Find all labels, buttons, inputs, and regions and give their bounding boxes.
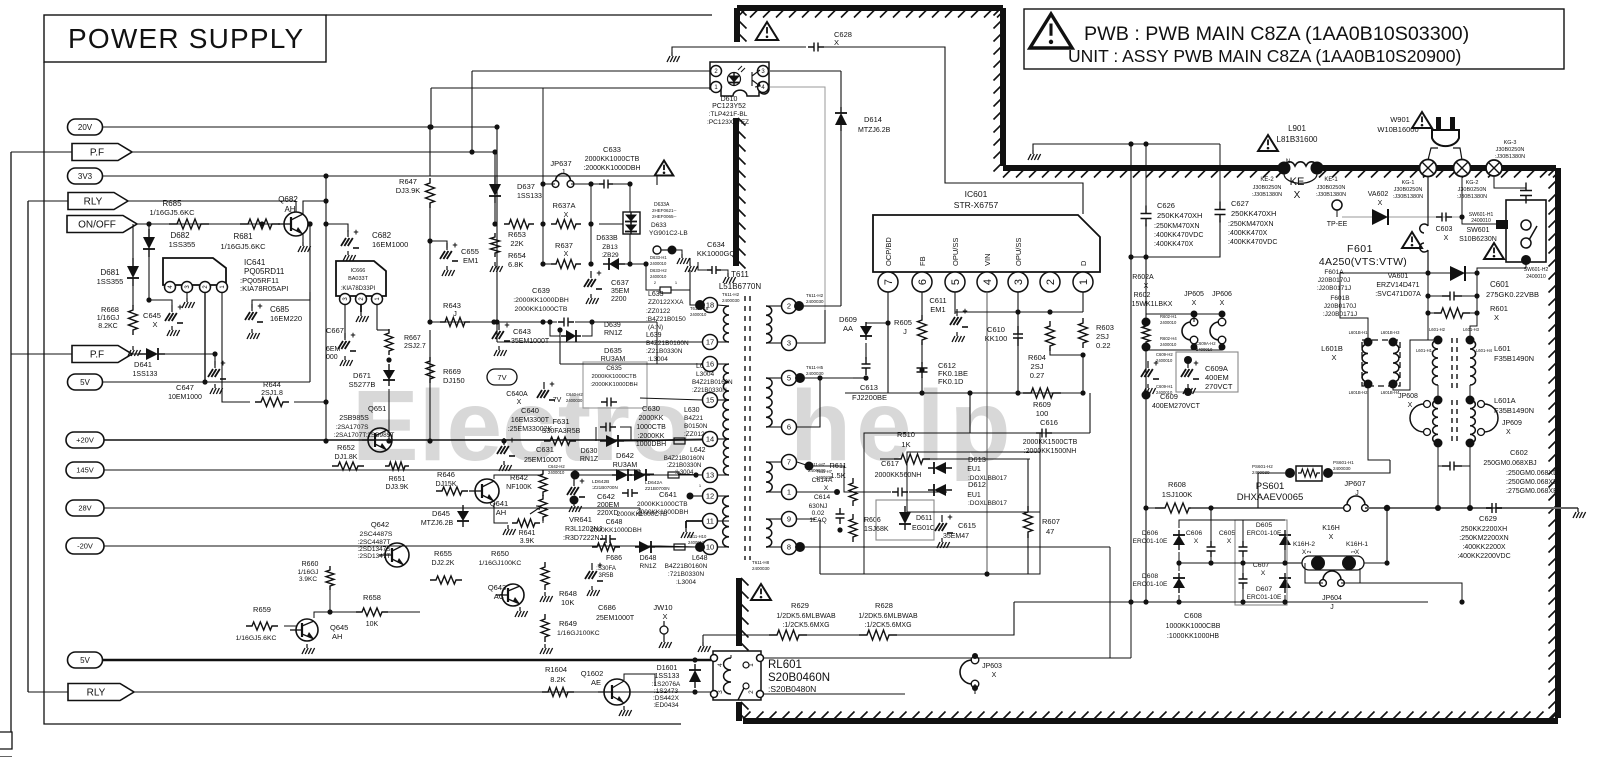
svg-text:C667: C667 [326,326,344,335]
svg-text:11: 11 [706,517,714,526]
svg-text:K16H-1: K16H-1 [1346,541,1368,548]
transformer T611 right winding C [766,462,772,492]
capacitor C628 [808,43,824,52]
svg-text:ON/OFF: ON/OFF [78,220,116,231]
resistor R643 [440,318,470,327]
jumper JP637 [552,181,559,188]
diode D1601 [694,664,696,688]
isolation barrier right descent [1000,8,1006,166]
svg-text:X: X [1378,200,1383,207]
bus y574 [820,573,1040,575]
svg-text:D630: D630 [581,448,598,455]
wire relay right bottom [764,693,905,695]
svg-text:200EM: 200EM [597,502,619,509]
svg-text:EU1: EU1 [967,466,981,473]
svg-text:R669: R669 [443,367,461,376]
svg-text:C682: C682 [372,231,392,240]
svg-text:5V: 5V [80,656,90,665]
svg-text:D648: D648 [640,555,657,562]
capacitor C626 [1145,144,1147,212]
wire pin1 right [797,491,837,493]
transformer T611 right winding A [766,306,772,343]
svg-text:X: X [517,399,522,406]
svg-text:C685: C685 [270,305,290,314]
svg-text:C609A-H2: C609A-H2 [1196,341,1216,346]
svg-text:L81B31600: L81B31600 [1277,135,1318,144]
T611 pin 10 [703,540,718,555]
svg-text:16EM1000: 16EM1000 [372,240,408,249]
svg-text:RN1Z: RN1Z [640,563,657,570]
svg-text:POWER SUPPLY: POWER SUPPLY [68,23,304,54]
T611 pin 3 [782,336,797,351]
svg-text:SW601: SW601 [1467,227,1490,234]
svg-text:R659: R659 [253,605,271,614]
svg-text:630NJ: 630NJ [809,503,828,510]
wire -20V to D648 [645,545,660,547]
svg-text:2SB985S: 2SB985S [339,415,369,422]
svg-text:D641: D641 [134,360,152,369]
svg-text:DJ150: DJ150 [443,376,465,385]
transistor Q651 [368,428,392,452]
svg-text:R647: R647 [399,177,417,186]
isolation barrier top-left stub [734,8,740,42]
wire pin8 bus down [900,546,1110,548]
wire opto left pin2 [472,70,710,72]
ferrite bead pin10 [674,544,685,550]
svg-text:C686: C686 [598,603,616,612]
svg-text:1/16GJ5.6KC: 1/16GJ5.6KC [236,635,277,642]
svg-text:STR-X6757: STR-X6757 [954,200,999,210]
svg-text:2000KK: 2000KK [639,415,664,422]
svg-text:OCP/BD: OCP/BD [884,237,893,266]
svg-text:DJ3.9K: DJ3.9K [386,484,409,491]
T611 pin 13 [703,468,718,483]
svg-text:+: + [597,560,602,570]
svg-text:X: X [1261,570,1266,577]
svg-text:C647: C647 [176,383,194,392]
transistor Q1602 [604,679,630,705]
svg-text:JP603: JP603 [982,663,1002,670]
svg-text:KG-2: KG-2 [1466,180,1479,186]
capacitor C686 [591,563,593,570]
capacitor C682 [326,224,348,232]
svg-text:R604: R604 [1028,353,1046,362]
capacitor C627 [1219,144,1221,206]
svg-text:J30B0250N: J30B0250N [1394,187,1423,193]
svg-text:L901: L901 [1288,124,1306,133]
ground Q682 [302,234,304,242]
svg-text:W901: W901 [1390,115,1410,124]
svg-text:IC601: IC601 [965,189,988,199]
svg-text:4A250(VTS:VTW): 4A250(VTS:VTW) [1319,256,1407,268]
wire 5V to IC641 [309,292,311,382]
wire pin5 right [805,377,866,379]
svg-text:T611-H2: T611-H2 [806,293,824,298]
svg-text:5V: 5V [80,378,90,387]
svg-text:OPU/SS: OPU/SS [1014,238,1023,266]
svg-text:1SS133: 1SS133 [655,673,680,680]
svg-text:JP606: JP606 [1212,291,1232,298]
svg-text::DS442X: :DS442X [653,695,680,702]
capacitor C611 [954,292,956,314]
svg-text:X: X [1329,534,1334,541]
svg-text:2000KK1000CTB: 2000KK1000CTB [637,501,688,508]
svg-text::Z21B0330N: :Z21B0330N [646,348,683,355]
svg-text:T611-H8: T611-H8 [752,560,770,565]
svg-text:100: 100 [1036,409,1049,418]
svg-text:25EM1000T: 25EM1000T [524,457,563,464]
svg-text:EG01C: EG01C [912,525,935,532]
svg-text:D611: D611 [916,515,932,522]
resistor R652 [332,462,364,470]
svg-text:X: X [1220,300,1225,307]
svg-text:D: D [1079,260,1088,266]
wire pin16 left [560,363,703,365]
connector RLY top [68,193,128,210]
svg-text:R608: R608 [1168,480,1186,489]
svg-text:C609A: C609A [1205,364,1228,373]
T611 pin 15 [703,393,718,408]
svg-text:R681: R681 [233,232,253,241]
svg-text:R654: R654 [508,251,526,260]
svg-text:6.8K: 6.8K [508,260,523,269]
wires diode cluster [1179,520,1285,528]
ground right bus [1560,507,1578,509]
svg-text:4: 4 [717,663,724,667]
diode D609 [866,322,888,324]
diode D641 [139,353,165,355]
T611 pin 5 [782,371,797,386]
oval 7V box [487,369,517,385]
vertical x543 [542,88,544,264]
svg-text:2400010: 2400010 [688,540,705,545]
svg-text:2SC4487S: 2SC4487S [360,531,393,538]
svg-text:0.27: 0.27 [1030,371,1045,380]
svg-text:RN1Z: RN1Z [580,456,599,463]
svg-text:2HEF0621--: 2HEF0621-- [652,208,677,213]
T611 pin 12 [703,489,718,504]
svg-text:275GK0.22VBB: 275GK0.22VBB [1486,290,1539,299]
svg-text:C642: C642 [597,492,615,501]
svg-text:D633-H1: D633-H1 [650,255,667,260]
vertical rail x1131 [1130,144,1132,602]
svg-text:R655: R655 [434,549,452,558]
svg-text:R658: R658 [363,593,381,602]
svg-text:D671: D671 [353,371,371,380]
svg-text:R685: R685 [162,199,182,208]
svg-text:+: + [962,306,967,316]
resistor R641 [512,519,540,527]
wire C628 right [822,47,1083,214]
wire Q682 collector right [303,201,326,214]
optocoupler D610 [710,62,769,96]
svg-text:C615: C615 [958,521,976,530]
capacitor C642 [573,475,575,482]
svg-text:2400030: 2400030 [722,298,740,303]
capacitor C645 [171,305,173,312]
resistor R659 [246,622,278,630]
svg-text::R3D7222NJ: :R3D7222NJ [563,535,603,542]
svg-text:IC666: IC666 [351,268,366,274]
svg-text:S5277B: S5277B [349,380,376,389]
svg-text:EM1: EM1 [930,305,945,314]
svg-text:D681: D681 [100,268,120,277]
svg-text:2400010: 2400010 [1156,358,1173,363]
capacitor C615 [941,515,943,522]
wire C602 down to bus [1437,466,1439,508]
svg-text:C610: C610 [987,325,1005,334]
svg-text:2400030: 2400030 [806,299,824,304]
svg-text:PQ05RD11: PQ05RD11 [244,267,285,276]
svg-text:VIN: VIN [983,253,992,266]
resistor R610 [894,454,930,464]
svg-text:+: + [257,301,262,311]
ground T611 top [690,270,703,305]
svg-text:L601B-H3: L601B-H3 [1381,330,1401,335]
svg-text:PC123Y52: PC123Y52 [712,103,746,110]
node x497 bus [496,127,498,342]
svg-text:DJ15K: DJ15K [435,481,456,488]
svg-text:R668: R668 [101,305,119,314]
svg-text:R643: R643 [443,301,461,310]
ground IC666 pin2 [360,304,362,312]
svg-text:J: J [561,169,565,176]
svg-text:X: X [834,38,839,47]
svg-text::400KK470VDC: :400KK470VDC [1228,239,1277,246]
svg-text:C614: C614 [814,494,830,501]
svg-text::721B0330N: :721B0330N [668,571,704,578]
isolation barrier AC line right [1319,165,1556,171]
svg-text:12: 12 [706,492,714,501]
wire relay right top [764,657,975,659]
T611 pin 2 [782,299,797,314]
svg-text:R601: R601 [1490,304,1508,313]
svg-text:T611-H10: T611-H10 [688,534,707,539]
svg-text:2400030: 2400030 [566,398,583,403]
svg-text:AH: AH [332,632,342,641]
svg-text:R606: R606 [864,517,881,524]
resistor R649 [541,614,549,642]
svg-text:X: X [1408,402,1413,409]
isolation barrier bottom [743,718,1558,724]
resistor R606 [849,514,857,542]
svg-text:ERZV14D471: ERZV14D471 [1376,282,1419,289]
svg-text:ERC01-10E: ERC01-10E [1133,581,1168,588]
connector 3V3 [68,168,103,184]
warning triangle below transformer [751,584,771,600]
wire pin7 right [797,462,809,466]
svg-text:R609: R609 [1033,400,1051,409]
svg-text:1/16GJ5.6KC: 1/16GJ5.6KC [149,208,195,217]
isolation barrier below transformer [736,578,742,646]
transformer T611 left winding D [723,439,729,475]
svg-text:EU1: EU1 [967,492,981,499]
svg-text:+20V: +20V [76,436,94,445]
wire pin17 left [497,341,703,343]
trimmer VR641 [539,495,547,521]
svg-text:1/16GJ: 1/16GJ [298,569,319,576]
svg-text:1K: 1K [901,440,910,449]
wire pin14 left [652,439,703,440]
svg-text::250KM470XN: :250KM470XN [1228,221,1274,228]
svg-text::2000KK1000DBH: :2000KK1000DBH [590,382,637,388]
resistor R605 [918,315,927,345]
svg-text::1/2CK5.6MXG: :1/2CK5.6MXG [782,622,829,629]
svg-text:C635: C635 [606,365,622,372]
warning triangle sw [1484,243,1504,259]
svg-text:8: 8 [787,543,791,552]
svg-text:1/2DK5.6MLBWAB: 1/2DK5.6MLBWAB [858,613,918,620]
svg-text::J30B1380N: :J30B1380N [1252,192,1282,198]
wire switch down [1477,262,1526,273]
wire pin15 left [640,398,703,400]
capacitor C685 [252,224,310,308]
wire top rail y312 [955,311,1083,313]
diode D637 [494,177,496,203]
svg-text:D613: D613 [968,455,986,464]
capacitor C609A [1176,352,1238,392]
diode D614 [840,107,842,131]
svg-text:D605: D605 [1256,522,1272,529]
svg-text::2SD1347T: :2SD1347T [358,553,391,560]
T611 pin 6 [782,420,797,435]
wire P.F bottom [132,353,215,355]
svg-text:(A:N): (A:N) [648,324,663,331]
svg-text:C616: C616 [1040,418,1058,427]
svg-text:3: 3 [787,339,791,348]
svg-text::1/2CK5.6MXG: :1/2CK5.6MXG [864,622,911,629]
svg-text:250GM0.068XBJ: 250GM0.068XBJ [1483,460,1536,467]
connector +20V [66,432,104,448]
test point TP-EE [1332,200,1342,210]
svg-text:C633: C633 [603,145,621,154]
svg-text::Z21B0330N: :Z21B0330N [667,462,702,469]
resistor R653 [504,220,534,229]
svg-text::PC123X5YFZ: :PC123X5YFZ [707,119,749,126]
svg-text:9: 9 [787,515,791,524]
svg-text::400KK470X: :400KK470X [1154,241,1194,248]
resistor R681 [240,219,280,229]
capacitor C655 [429,203,431,322]
T611 pin 8 [782,540,797,555]
wire pin11 left [686,520,703,522]
svg-text:R637: R637 [555,241,573,250]
svg-text:C617: C617 [881,459,899,468]
resistor R637A [551,220,581,229]
T611 pin 17 [703,335,718,350]
svg-text:C629: C629 [1479,514,1497,523]
wire +20V [104,439,652,441]
svg-text:C603: C603 [1436,226,1453,233]
vertical x591 [590,184,592,264]
svg-text:C627: C627 [1231,199,1249,208]
IC641 pin 2 [200,282,211,293]
svg-text:1/16GJ100KC: 1/16GJ100KC [557,630,600,637]
svg-text::ZB29: :ZB29 [601,252,619,259]
T611 pin 9 [782,512,797,527]
capacitor C629 [1486,503,1502,513]
diode D613 [928,467,952,469]
svg-text:Q651: Q651 [368,404,386,413]
svg-text:Q643: Q643 [488,583,506,592]
svg-text:2400010: 2400010 [1160,320,1177,325]
svg-text:28V: 28V [78,504,91,513]
resistor R642 [539,470,547,496]
wire 145V net vertical [640,470,654,474]
svg-text:L601B-H2: L601B-H2 [1349,390,1369,395]
svg-text:R611: R611 [829,461,846,470]
isolation barrier AC line left [1003,165,1280,171]
svg-text:NF100K: NF100K [506,484,532,491]
isolation barrier mid vertical [733,118,739,266]
row pin10 -20V rail [645,546,697,548]
transformer T611 right winding B [766,378,772,427]
svg-text:2SJ1.8: 2SJ1.8 [261,390,283,397]
svg-text:R602-H4: R602-H4 [1160,336,1177,341]
svg-text:ERC01-10E: ERC01-10E [1133,538,1168,545]
resistor R651 [385,462,409,470]
svg-text:270VCT: 270VCT [1205,382,1233,391]
diode D639 loop [550,322,560,336]
wire pin3 right [797,310,825,343]
svg-text:C639: C639 [532,286,550,295]
svg-text:13: 13 [706,471,714,480]
svg-text:ZZ0122XXA: ZZ0122XXA [648,299,684,306]
svg-text:+: + [504,320,509,330]
warning triangle fuse [1402,232,1422,248]
capacitor C635 [601,398,617,407]
svg-text:5: 5 [950,279,962,285]
svg-text:C640-H2: C640-H2 [566,392,583,397]
svg-text:F686: F686 [606,555,622,562]
svg-text:17: 17 [706,338,714,347]
svg-text:D609: D609 [839,315,857,324]
wire 28V [104,507,640,509]
IC641 pin 1 [217,282,228,293]
svg-text:2200: 2200 [611,296,627,303]
svg-text:R642: R642 [510,473,528,482]
svg-text:B4Z21B0160N: B4Z21B0160N [664,455,705,462]
svg-text:RU3AM: RU3AM [613,462,638,469]
IC regulator IC666 [336,261,386,296]
svg-text:PS601: PS601 [1256,481,1285,492]
wire jumper rail [1146,313,1222,315]
svg-text:C602: C602 [1510,448,1528,457]
svg-text::DOXLBB017: :DOXLBB017 [968,500,1007,507]
svg-text:D637: D637 [517,182,535,191]
wire 20V [103,126,497,128]
connector KG-1 [1420,160,1437,177]
svg-text:DJ1.8K: DJ1.8K [335,454,358,461]
svg-text:7: 7 [883,279,895,285]
connector P.F bottom [72,346,132,363]
svg-text::2SD1347S: :2SD1347S [357,546,391,553]
svg-text:C643: C643 [513,327,531,336]
svg-text:J20B0170J: J20B0170J [1318,277,1351,284]
connector KG-2 [1454,160,1471,177]
svg-text:K16H-2: K16H-2 [1293,541,1315,548]
vertical bus x326 [325,176,327,441]
svg-text:IC641: IC641 [244,258,266,267]
resistor R607 [1024,506,1033,538]
svg-text:+: + [509,435,514,445]
svg-text::1000KK1000HB: :1000KK1000HB [1167,633,1219,640]
svg-text:2400010: 2400010 [650,274,667,279]
svg-text:R649: R649 [559,619,577,628]
svg-text:D610: D610 [721,96,738,103]
svg-text:6EM: 6EM [326,346,341,353]
svg-text:10EM1000: 10EM1000 [168,394,202,401]
